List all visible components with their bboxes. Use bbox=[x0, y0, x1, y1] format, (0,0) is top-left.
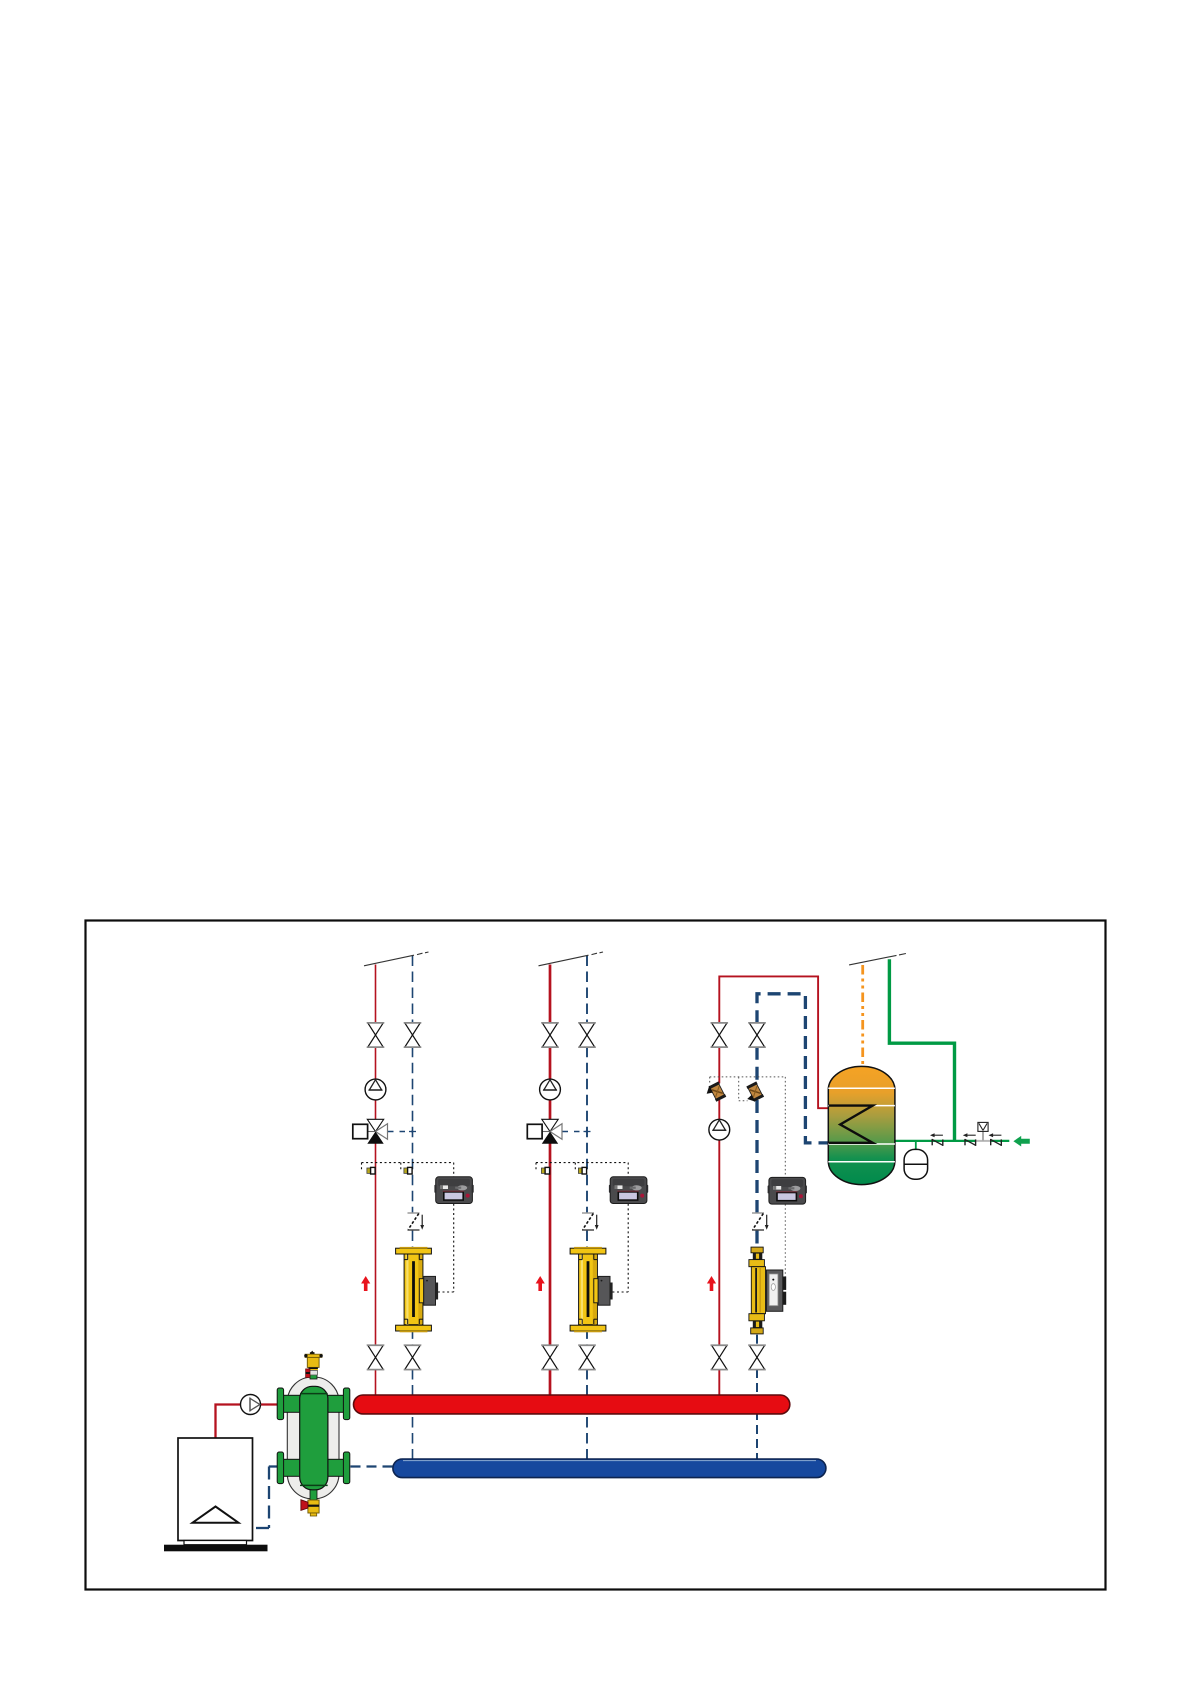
circuit 3 flow arrow bbox=[707, 1276, 716, 1291]
circuit 2 ultrasonic flow meter bbox=[570, 1247, 613, 1332]
circuit 1 heat meter display bbox=[434, 1177, 473, 1204]
circuit 3 pump bbox=[709, 1119, 730, 1140]
boiler base plinth bbox=[164, 1545, 268, 1552]
separator air vent valve bbox=[304, 1351, 323, 1378]
circuit 3 heat meter display bbox=[768, 1177, 807, 1204]
safety relief valve bbox=[978, 1122, 988, 1141]
hydraulic separator vessel bbox=[300, 1369, 328, 1500]
separator to return manifold dashed link bbox=[351, 1465, 393, 1467]
check valve 3 on cold water line bbox=[989, 1133, 1002, 1146]
circuit 2 flow arrow bbox=[536, 1276, 545, 1291]
circuit 1 supply temperature sensor bbox=[367, 1167, 375, 1174]
boiler supply pipe bbox=[216, 1405, 278, 1439]
circuit 1 sensor wiring dotted bbox=[362, 1163, 454, 1292]
boiler return pipe dashed bbox=[253, 1467, 278, 1529]
circuit 3 check valve return (brass) bbox=[742, 1081, 764, 1104]
DHW tank break mark bbox=[849, 954, 906, 965]
circuit 1 ultrasonic flow meter bbox=[396, 1247, 439, 1332]
circuit 2 3-way mixing valve with actuator bbox=[527, 1119, 590, 1143]
circuit 2 supply shutoff valve bottom bbox=[541, 1345, 559, 1369]
cold water inlet arrow bbox=[1013, 1136, 1029, 1147]
check valve 2 on cold water line bbox=[963, 1133, 976, 1146]
circuit 3 sensor wiring dotted bbox=[710, 1077, 786, 1292]
circuit 2 pipe break mark bbox=[539, 952, 604, 966]
supply manifold (red) bbox=[354, 1395, 790, 1414]
circuit 3 supply shutoff valve bottom bbox=[711, 1345, 729, 1369]
circuit 2 pump bbox=[540, 1079, 561, 1100]
circuit 1 return shutoff valve bottom bbox=[404, 1345, 422, 1369]
separator flange bottom-left bbox=[277, 1452, 300, 1484]
check valve 1 on cold water line bbox=[930, 1133, 943, 1146]
boiler pump P0 bbox=[241, 1395, 261, 1415]
tank heat exchanger coil bbox=[829, 1106, 873, 1143]
separator drain valve bbox=[301, 1500, 319, 1516]
circuit 3 supply shutoff valve top bbox=[711, 1023, 729, 1047]
circuit 2 heat meter display bbox=[609, 1177, 648, 1204]
boiler flame symbol bbox=[193, 1507, 239, 1523]
circuit 3 check valve supply (brass) bbox=[704, 1081, 726, 1104]
circuit 1 return shutoff valve top bbox=[404, 1023, 422, 1047]
separator flange top-right bbox=[327, 1388, 350, 1420]
circuit 1 pump bbox=[365, 1079, 386, 1100]
hydraulic separator insulation casing bbox=[287, 1377, 339, 1499]
circuit 1 balancing symbol Z bbox=[408, 1213, 425, 1230]
circuit 2 return temperature sensor bbox=[578, 1167, 586, 1174]
circuit 3 return shutoff valve bottom bbox=[748, 1345, 766, 1369]
circuit 2 balancing symbol Z bbox=[582, 1213, 599, 1230]
expansion vessel bbox=[904, 1149, 928, 1179]
circuit 1 3-way mixing valve with actuator bbox=[353, 1119, 416, 1143]
circuit 2 return shutoff valve top bbox=[578, 1023, 596, 1047]
circuit 3 return riser (blue dashed thick) bbox=[757, 994, 829, 1460]
return manifold (blue) bbox=[393, 1459, 826, 1478]
circuit 1 return temperature sensor bbox=[404, 1167, 412, 1174]
separator flange bottom-right bbox=[327, 1452, 350, 1484]
circuit 1 supply shutoff valve top bbox=[367, 1023, 385, 1047]
circuit 2 return riser (blue dashed) bbox=[586, 956, 588, 1460]
circuit 2 supply riser (red) bbox=[549, 965, 552, 1397]
DHW pipe (green) bbox=[889, 959, 1009, 1150]
circuit 3 supply riser (red) bbox=[719, 976, 829, 1396]
circuit 1 supply riser (red) bbox=[375, 965, 377, 1397]
circuit 1 flow arrow bbox=[361, 1276, 370, 1291]
circuit 3 balancing symbol Z bbox=[752, 1213, 769, 1230]
circuit 2 return shutoff valve bottom bbox=[578, 1345, 596, 1369]
circuit 3 compact flow meter bbox=[749, 1247, 786, 1334]
circuit 2 supply shutoff valve top bbox=[541, 1023, 559, 1047]
schematic border frame bbox=[86, 921, 1106, 1590]
circuit 1 supply shutoff valve bottom bbox=[367, 1345, 385, 1369]
boiler B1 bbox=[178, 1438, 253, 1545]
circuit 3 return shutoff valve top bbox=[748, 1023, 766, 1047]
circuit 2 sensor wiring dotted bbox=[536, 1163, 628, 1292]
circuit 1 pipe break mark bbox=[364, 952, 429, 966]
circuit 2 supply temperature sensor bbox=[541, 1167, 549, 1174]
separator flange top-left bbox=[277, 1388, 300, 1420]
circuit 1 return riser (blue dashed) bbox=[412, 956, 414, 1460]
tank sensor line (orange dash-dot) bbox=[861, 965, 864, 1066]
